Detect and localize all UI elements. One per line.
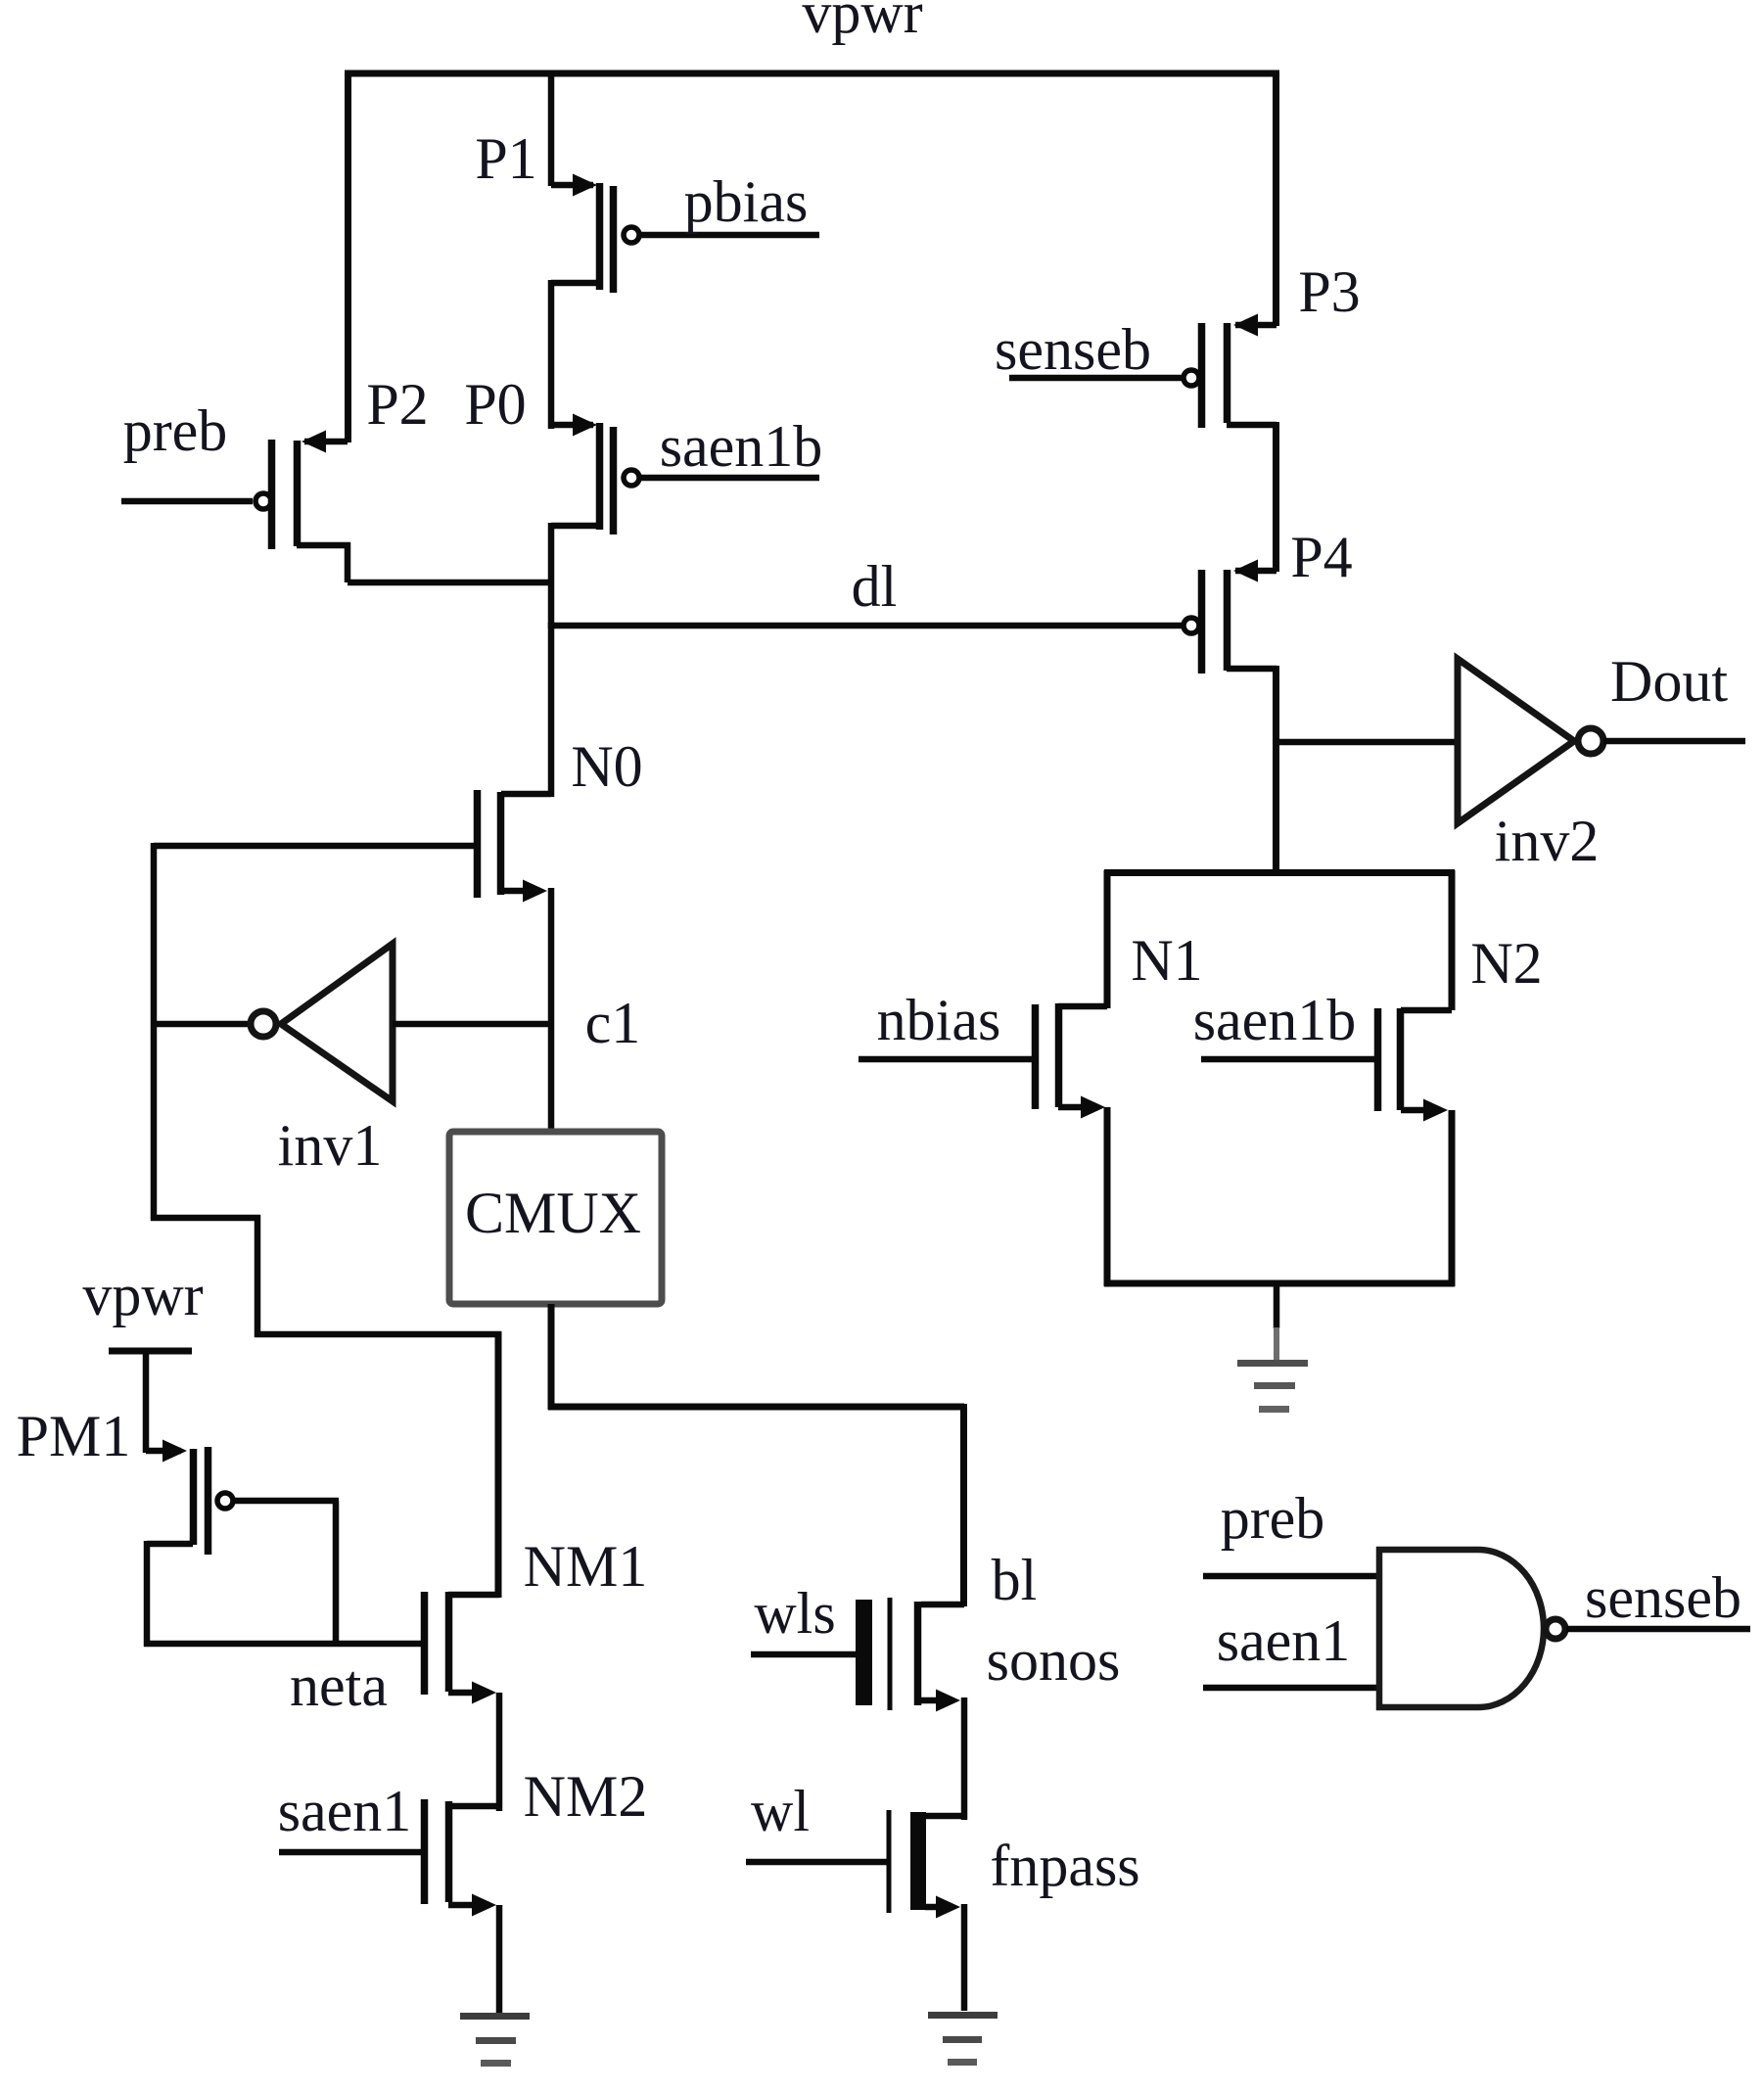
- svg-text:P1: P1: [475, 126, 536, 191]
- net saen1b wire (P0 gate): [639, 475, 819, 482]
- wire output node to inv2 input: [1277, 739, 1458, 746]
- wire P3 drain to P4 source: [1273, 422, 1279, 572]
- svg-text:neta: neta: [290, 1653, 388, 1718]
- transistor N2: [1378, 870, 1453, 1286]
- transistor P4: [1184, 560, 1277, 674]
- wire N0 source to c1 / CMUX: [548, 888, 555, 1135]
- wire inv1 output vertical: [151, 843, 158, 1221]
- transistor P0: [551, 414, 639, 535]
- svg-text:PM1: PM1: [17, 1404, 131, 1468]
- ground (N1/N2 sources): [1237, 1327, 1308, 1413]
- svg-text:P0: P0: [464, 372, 526, 437]
- net pbias wire: [639, 232, 819, 239]
- svg-text:preb: preb: [1221, 1486, 1325, 1551]
- transistor P3: [1184, 314, 1277, 429]
- block CMUX: [449, 1132, 662, 1304]
- svg-text:senseb: senseb: [995, 317, 1151, 382]
- svg-text:NM1: NM1: [524, 1534, 648, 1599]
- wire dl node to N0 drain: [548, 623, 555, 797]
- transistor PM1: [146, 1440, 339, 1648]
- transistor NM2: [425, 1799, 500, 2013]
- net senseb wire (P3 gate): [1009, 375, 1184, 382]
- svg-text:saen1: saen1: [1217, 1608, 1351, 1673]
- svg-text:senseb: senseb: [1585, 1565, 1741, 1630]
- wire N1/N2 block bottom line: [1104, 1280, 1455, 1287]
- svg-text:P4: P4: [1290, 525, 1352, 589]
- transistor P2: [121, 431, 551, 583]
- net nbias wire (N1 gate): [859, 1056, 1036, 1063]
- power vpwr stub (PM1 source): [109, 1348, 192, 1355]
- transistor sonos (SONOS cell, gate wls): [751, 1598, 964, 1820]
- wire CMUX bottom to bl: [548, 1304, 555, 1410]
- wire vpwr rail to P1 source: [548, 70, 555, 186]
- svg-text:inv1: inv1: [278, 1113, 383, 1178]
- wire P0 drain to dl node: [548, 523, 555, 628]
- svg-text:dl: dl: [852, 554, 898, 619]
- net saen1 wire (NM2 gate): [279, 1849, 425, 1856]
- svg-text:P2: P2: [366, 372, 428, 437]
- svg-text:vpwr: vpwr: [82, 1263, 203, 1327]
- net neta wire: [144, 1641, 425, 1648]
- wire inv1 node elbow to NM1 drain: [151, 1215, 501, 1598]
- svg-text:wls: wls: [754, 1581, 835, 1646]
- svg-text:saen1b: saen1b: [1193, 988, 1357, 1052]
- svg-text:vpwr: vpwr: [802, 0, 922, 45]
- transistor NM1: [425, 1592, 500, 1811]
- svg-text:nbias: nbias: [877, 988, 1001, 1052]
- transistor P1: [551, 174, 639, 294]
- svg-text:inv2: inv2: [1495, 809, 1600, 873]
- transistor N1: [1036, 1003, 1108, 1286]
- svg-text:pbias: pbias: [684, 169, 809, 234]
- svg-text:saen1: saen1: [278, 1779, 412, 1843]
- svg-text:Dout: Dout: [1610, 649, 1728, 714]
- svg-text:c1: c1: [585, 991, 641, 1055]
- svg-text:wl: wl: [751, 1779, 810, 1843]
- svg-text:sonos: sonos: [987, 1628, 1121, 1693]
- svg-text:bl: bl: [992, 1548, 1038, 1612]
- ground (NM2 source): [460, 2013, 530, 2067]
- svg-text:P3: P3: [1298, 259, 1360, 324]
- svg-text:fnpass: fnpass: [990, 1834, 1139, 1898]
- wire bl vertical (CMUX to sonos drain): [960, 1404, 967, 1606]
- wire vpwr rail to P2 source (left vertical): [345, 70, 351, 442]
- transistor N0: [478, 790, 552, 903]
- ground (fnpass source): [928, 2012, 998, 2066]
- wire vpwr stub to PM1 source: [143, 1348, 150, 1453]
- wire P1 drain to P0 source: [548, 280, 555, 429]
- svg-text:N2: N2: [1470, 931, 1542, 996]
- wire N1/N2 block top line: [1104, 869, 1455, 876]
- svg-text:preb: preb: [123, 398, 228, 463]
- wire vpwr rail to P3 source: [1273, 70, 1279, 326]
- svg-text:N0: N0: [571, 734, 642, 799]
- svg-text:N1: N1: [1131, 928, 1202, 993]
- wire P4 drain to output node: [1273, 666, 1279, 873]
- wire vpwr top rail: [345, 70, 1279, 77]
- wire N0 gate to inv1 output node: [154, 843, 477, 850]
- inverter inv2: [1458, 659, 1745, 823]
- net dl wire: [551, 623, 1184, 629]
- net saen1b wire (N2 gate): [1201, 1056, 1378, 1063]
- inverter inv1: [154, 944, 551, 1101]
- svg-text:saen1b: saen1b: [660, 414, 823, 479]
- wire top line to N1 drain (left rail): [1104, 870, 1111, 1008]
- gate NAND U1 (preb, saen1 -> senseb): [1203, 1550, 1750, 1707]
- svg-text:NM2: NM2: [524, 1764, 648, 1829]
- transistor fnpass (gate wl): [746, 1810, 964, 2011]
- wire bottom line to ground: [1274, 1283, 1280, 1328]
- svg-text:CMUX: CMUX: [465, 1181, 641, 1245]
